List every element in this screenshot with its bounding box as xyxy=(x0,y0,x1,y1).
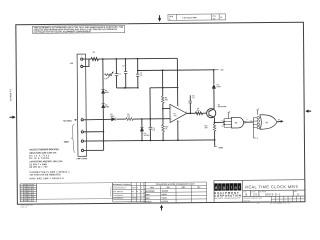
svg-text:UNLESS OTHERWISE INDICATED:: UNLESS OTHERWISE INDICATED: xyxy=(29,148,59,151)
svg-text:112: 112 xyxy=(27,186,29,188)
svg-text:K-PL-M9/5-0-2: K-PL-M9/5-0-2 xyxy=(113,191,123,193)
svg-text:+C1: +C1 xyxy=(118,74,121,76)
svg-text:D662: D662 xyxy=(145,198,150,200)
svg-text:ECO NO.: ECO NO. xyxy=(243,200,251,202)
diode D3 on pin wire xyxy=(112,118,116,121)
wire: H1 corner down to op-amp pin7 xyxy=(176,58,178,106)
top revision strip xyxy=(168,14,226,21)
svg-text:T.S: T.S xyxy=(32,190,34,192)
svg-text:E2 IS A 7400N: E2 IS A 7400N xyxy=(29,157,49,160)
svg-text:2N3009: 2N3009 xyxy=(162,191,169,193)
resistor R11 xyxy=(195,112,203,115)
svg-text:318: 318 xyxy=(27,190,30,192)
GND brace xyxy=(71,124,75,152)
svg-text:E: E xyxy=(20,192,21,194)
svg-text:C2: C2 xyxy=(122,65,124,67)
diode D1 xyxy=(101,90,104,94)
wire: pin2 to vertical stub xyxy=(83,59,89,66)
gate2 +5 stub up xyxy=(257,110,259,115)
svg-text:5-18: 5-18 xyxy=(24,188,27,190)
wire: pin1 to vertical stub xyxy=(83,58,89,60)
svg-text:RESISTORS ARE 1/4W; 5%: RESISTORS ARE 1/4W; 5% xyxy=(29,152,56,155)
svg-text:CS: CS xyxy=(253,193,257,197)
connector pin 1 (top) xyxy=(81,58,83,60)
notes text block xyxy=(29,148,70,180)
svg-text:2-26: 2-26 xyxy=(24,196,27,198)
connector lower pin D xyxy=(81,149,83,151)
svg-text:IN752A: IN752A xyxy=(145,200,152,203)
svg-text:TRANSISTOR & DIODE CONVERSION: TRANSISTOR & DIODE CONVERSION CHART xyxy=(156,183,196,186)
parts list long box xyxy=(37,183,113,200)
wire emitter node to gate1 ladder xyxy=(214,121,224,123)
svg-text:APPROVALS: APPROVALS xyxy=(109,186,112,197)
svg-text:E2: E2 xyxy=(235,122,237,124)
svg-text:d: d xyxy=(215,185,217,190)
wire: stub to R1 xyxy=(89,58,91,60)
svg-text:GND: GND xyxy=(64,142,69,144)
wire H3 feedback y=87.7 xyxy=(150,87,178,89)
op-amp output + cap C8 stub xyxy=(187,112,195,114)
svg-text:6-30: 6-30 xyxy=(24,200,27,202)
svg-text:IN752A: IN752A xyxy=(144,134,151,137)
bottom centre mark arrow xyxy=(160,205,163,211)
svg-text:CORPORATION: CORPORATION xyxy=(214,193,241,197)
vertical V3 x=126 with cap C2 xyxy=(125,59,127,72)
svg-text:CS M9/5-0-1: CS M9/5-0-1 xyxy=(10,88,12,101)
connector lower pin B xyxy=(81,131,83,133)
notice box xyxy=(32,25,124,33)
vertical V4 x=138.1 with cap C3 xyxy=(137,59,139,74)
plus input wire from 470 resistor xyxy=(116,118,125,120)
svg-text:IN645: IN645 xyxy=(162,197,167,200)
connector lower pin A xyxy=(81,119,83,121)
svg-text:E: E xyxy=(297,192,299,196)
gate 1 E2 (AND shape) xyxy=(223,119,225,128)
connector pin numbers xyxy=(81,55,83,149)
svg-text:6.8: 6.8 xyxy=(152,130,154,132)
handwriting below border xyxy=(257,202,290,205)
wire pin A to D3 xyxy=(83,118,111,120)
junction dots on H1 xyxy=(102,58,139,60)
svg-text:DRA 102: DRA 102 xyxy=(21,206,28,209)
resistor R1 zigzag xyxy=(91,58,99,61)
connector pin 2 xyxy=(81,65,83,67)
op-amp E1 xyxy=(170,104,187,122)
size/code/number/rev xyxy=(243,191,298,193)
svg-text:330: 330 xyxy=(205,127,208,129)
svg-text:816: 816 xyxy=(28,200,31,202)
svg-text:E2: E2 xyxy=(266,122,268,124)
svg-text:E2 PIN 14 = +5V: E2 PIN 14 = +5V xyxy=(29,166,48,169)
GND bus y=140.4 xyxy=(84,140,215,141)
cap C5 branch x=150.2 xyxy=(149,119,151,127)
top centre mark arrow xyxy=(158,15,161,22)
zener D5 branch x=141.8 xyxy=(141,119,143,127)
wire pin B to V1 xyxy=(83,131,103,133)
svg-text:i: i xyxy=(219,185,220,190)
svg-text:710: 710 xyxy=(174,115,177,117)
svg-text:i: i xyxy=(227,185,228,190)
svg-text:GND: GND xyxy=(219,147,224,149)
vertical chain x=162.9: R9, minus node, R10 xyxy=(162,70,164,96)
transistor Q1 xyxy=(207,109,216,118)
GND stub below bus xyxy=(214,140,216,147)
vertical from H3 down to plus-wire xyxy=(149,88,151,119)
svg-text:D-CS-M9/5-0-1: D-CS-M9/5-0-1 xyxy=(113,195,123,197)
svg-text:R11: R11 xyxy=(197,110,200,112)
svg-text:CS: CS xyxy=(132,195,134,197)
svg-text:AMP CONN: AMP CONN xyxy=(76,157,87,160)
svg-text:#60 TAB CAN BE REMOVED: #60 TAB CAN BE REMOVED xyxy=(30,173,62,176)
svg-text:B: B xyxy=(245,193,247,197)
minus input wire xyxy=(163,108,170,110)
svg-text:+10 VDC: +10 VDC xyxy=(63,121,73,123)
svg-text:DEC3009B: DEC3009B xyxy=(218,106,227,108)
wire H2 +5V bus y=70.3 xyxy=(138,69,214,72)
right centre mark arrow xyxy=(305,109,311,112)
vertical V1 x=103.3 xyxy=(102,59,104,87)
bottom-left small table xyxy=(20,184,37,202)
svg-text:B: B xyxy=(20,186,21,188)
svg-text:PINS ARE AMP # 583667-5: PINS ARE AMP # 583667-5 xyxy=(30,177,65,180)
svg-text:CAPACITORS ARE MFD; 100V; 10%: CAPACITORS ARE MFD; 100V; 10% xyxy=(29,160,62,163)
svg-text:D664: D664 xyxy=(110,115,114,118)
svg-text:D664: D664 xyxy=(105,91,109,94)
svg-text:D: D xyxy=(20,190,21,192)
wire gate1 to gate2 xyxy=(246,121,254,123)
svg-text:l: l xyxy=(239,185,240,190)
wire pin D up to bus xyxy=(84,149,104,151)
trimmer R2 zigzag + arrow xyxy=(104,74,112,76)
svg-text:D662: D662 xyxy=(105,106,109,108)
schematic labels xyxy=(62,50,280,160)
svg-text:CHG: CHG xyxy=(27,184,30,186)
svg-text:470: 470 xyxy=(127,115,130,118)
svg-text:M9/5-0-1: M9/5-0-1 xyxy=(265,192,281,196)
gate 2 E2 (NOR shape) xyxy=(252,118,254,128)
svg-text:H: H xyxy=(21,198,22,200)
svg-text:7-02: 7-02 xyxy=(24,190,27,192)
svg-text:.01: .01 xyxy=(192,97,194,99)
svg-text:1-08: 1-08 xyxy=(24,194,27,196)
digital logo blocks xyxy=(214,183,241,191)
collector vertical with diode D4 xyxy=(213,70,215,84)
svg-text:B 1/2 RWK 4.3.70: B 1/2 RWK 4.3.70 xyxy=(270,202,290,205)
+10VDC pointer arrow xyxy=(74,119,76,121)
gate2 lower stub down with C label xyxy=(253,128,255,138)
svg-text:12: 12 xyxy=(250,120,252,122)
reference drawings table xyxy=(113,183,146,202)
gate2 body OR shape xyxy=(260,115,277,130)
svg-text:G: G xyxy=(21,196,22,198)
svg-text:DEC3009B: DEC3009B xyxy=(145,191,155,193)
connector lower pin C xyxy=(81,140,83,142)
left centre mark arrow xyxy=(10,116,16,119)
svg-text:P.L: P.L xyxy=(132,191,134,193)
output wire with arrow xyxy=(277,120,282,123)
svg-text:T.S: T.S xyxy=(32,200,34,202)
emitter down with R12 xyxy=(213,118,215,124)
svg-text:633: 633 xyxy=(28,196,31,198)
border frame xyxy=(16,22,305,204)
op-amp pin4 down xyxy=(177,120,179,140)
svg-text:g: g xyxy=(223,185,225,190)
svg-text:F: F xyxy=(21,194,22,196)
connector J1 box xyxy=(77,54,86,156)
vertical V2 x=116.8 with cap C1 xyxy=(115,59,117,74)
svg-text:D662: D662 xyxy=(217,86,221,88)
svg-text:.01: .01 xyxy=(140,75,142,77)
svg-text:COPYRIGHT 1970 BY DIGITAL EQUI: COPYRIGHT 1970 BY DIGITAL EQUIPMENT CORP… xyxy=(34,30,92,34)
wire H4 cap bus xyxy=(117,87,138,89)
transistor & diode conversion chart xyxy=(144,182,207,203)
svg-text:10: 10 xyxy=(222,125,224,127)
svg-text:REAL TIME CLOCK M9/5: REAL TIME CLOCK M9/5 xyxy=(245,184,298,189)
svg-text:J-41 DCDA 0364: J-41 DCDA 0364 xyxy=(182,16,197,19)
diode D2 xyxy=(102,104,105,108)
wire: R1 to corner, top bus H1 xyxy=(99,57,178,60)
svg-text:519: 519 xyxy=(28,194,31,196)
svg-text:IN752A: IN752A xyxy=(162,200,169,203)
svg-text:4.2: 4.2 xyxy=(213,17,216,20)
svg-text:D.K: D.K xyxy=(32,194,34,196)
svg-text:C: C xyxy=(20,188,21,190)
